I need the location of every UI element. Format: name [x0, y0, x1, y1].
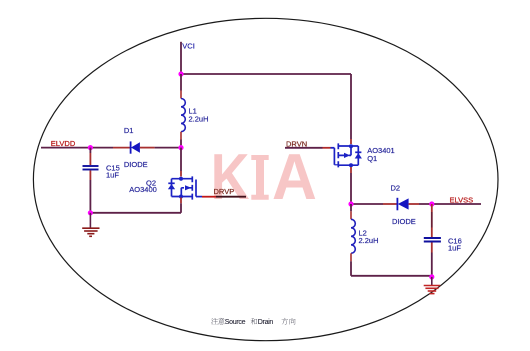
wire top rail: [181, 73, 351, 75]
svg-text:1uF: 1uF: [106, 171, 119, 180]
ground left: [82, 213, 99, 237]
diode D1: [113, 141, 155, 153]
Q2 gate pin: [196, 196, 202, 198]
inductor L2: [351, 211, 355, 261]
svg-text:D2: D2: [391, 184, 401, 193]
junction C16/ground right node: [429, 274, 434, 279]
wire Q2 drain drop: [180, 148, 182, 171]
transistor Q2 AO3400 NMOS: [168, 171, 202, 200]
wire L2 bottom: [350, 261, 352, 276]
Q1 drain lead: [338, 164, 358, 166]
junction C15/ground node: [88, 210, 93, 215]
svg-text:K: K: [211, 140, 250, 213]
ground right: [424, 277, 441, 294]
wire Q1 drain down: [350, 173, 352, 204]
transistor Q1 AO3401 PMOS: [334, 139, 362, 173]
svg-text:DIODE: DIODE: [392, 217, 416, 226]
schematic note text: [211, 318, 295, 326]
wire right drop to Q1 source: [350, 74, 352, 139]
Q1 body diode line: [357, 146, 359, 165]
diode D2: [383, 198, 419, 211]
svg-text:DRVP: DRVP: [214, 187, 235, 196]
Q1 source lead: [338, 145, 358, 147]
svg-text:ELVDD: ELVDD: [51, 139, 76, 148]
svg-text:2.2uH: 2.2uH: [189, 115, 209, 124]
Q1 gate pin: [334, 164, 338, 166]
svg-text:Q1: Q1: [367, 154, 377, 163]
Q2 body diode triangle: [168, 184, 175, 189]
junction L1/D1/Q2 node: [178, 145, 183, 150]
wire Q2 source down: [180, 198, 182, 204]
svg-text:AO3400: AO3400: [129, 185, 157, 194]
junction L2/D2 node: [348, 201, 353, 206]
junction ELVDD/C15 node: [88, 145, 93, 150]
svg-text:ELVSS: ELVSS: [450, 195, 474, 204]
wire DRVP: [202, 196, 216, 198]
Q1 body arrow: [344, 153, 350, 158]
Q1 gate bar: [333, 148, 335, 165]
Q2 source node dot: [179, 195, 183, 199]
Q2 channel dashes: [191, 176, 193, 199]
capacitor C16: [424, 204, 441, 277]
Q1 body diode triangle: [355, 153, 362, 159]
svg-text:D1: D1: [124, 126, 134, 135]
svg-text:A: A: [272, 140, 317, 213]
wire L1 bottom: [180, 140, 182, 148]
svg-text:1uF: 1uF: [448, 244, 461, 253]
wire ELVSS rail: [419, 203, 481, 205]
inductor L1: [181, 91, 185, 140]
svg-text:VCI: VCI: [182, 41, 195, 50]
wire VCI stub: [180, 42, 182, 74]
junction C16 node: [429, 201, 434, 206]
Q2 body diode line: [171, 179, 173, 197]
Q1 channel dashes: [337, 143, 339, 167]
Q2 body diode cathode bar: [168, 182, 174, 184]
svg-text:Drain: Drain: [258, 319, 274, 326]
wire L1 top: [180, 74, 182, 91]
wire ELVDD rail: [41, 147, 113, 149]
Q2 drain lead: [172, 178, 193, 180]
wire bottom right rail: [351, 275, 432, 277]
wire D1 to switch node: [155, 147, 181, 149]
svg-text:DIODE: DIODE: [124, 160, 148, 169]
wire L2 top: [350, 204, 352, 211]
Q2 body leg: [181, 188, 192, 197]
Q1 drain node dot: [349, 163, 353, 167]
Q1 body diode cathode bar: [355, 151, 361, 153]
wire DRVN: [285, 147, 323, 149]
KIA watermark: [211, 140, 317, 213]
Q2 gate bar: [195, 180, 197, 197]
Q2 source lead: [172, 196, 193, 198]
wire bottom left rail: [90, 212, 181, 214]
junction VCI node: [178, 71, 183, 76]
Q2 body arrow: [185, 185, 191, 190]
svg-text:2.2uH: 2.2uH: [359, 236, 379, 245]
capacitor C15: [83, 148, 99, 213]
Q2 drain node dot: [179, 177, 183, 181]
svg-text:Source: Source: [225, 319, 246, 326]
Q1 source node dot: [349, 144, 353, 148]
wire D2 row left: [351, 203, 383, 205]
Q1 body leg: [338, 146, 351, 155]
